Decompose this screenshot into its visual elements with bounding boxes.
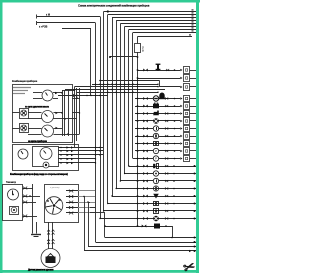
svg-text:P: P (155, 149, 157, 153)
svg-text:по цепи давления масла: по цепи давления масла (25, 106, 50, 108)
svg-text:P: P (155, 157, 157, 161)
svg-text:Комбинация приборов: Комбинация приборов (12, 80, 38, 83)
svg-text:Схема электрических соединений: Схема электрических соединений комбинаци… (78, 3, 150, 7)
svg-text:Датчик указателя уровня: Датчик указателя уровня (28, 268, 54, 271)
svg-text:на щитке приборов: на щитке приборов (28, 140, 47, 143)
svg-text:к датчику: к датчику (50, 187, 60, 189)
svg-text:ПР5Б: ПР5Б (143, 46, 145, 52)
svg-text:к +РЗВ: к +РЗВ (39, 25, 48, 29)
svg-text:Тахометр: Тахометр (6, 182, 17, 184)
svg-text:Комбинация приборов (вид сзади: Комбинация приборов (вид сзади со сторон… (10, 173, 68, 176)
svg-text:к М: к М (46, 13, 50, 17)
